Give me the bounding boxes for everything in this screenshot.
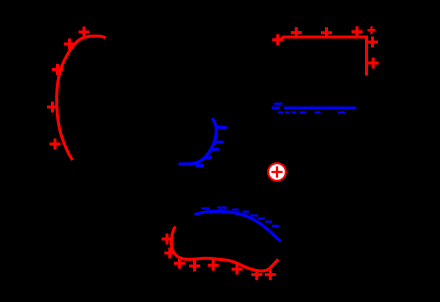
minus mark below S4: [278, 111, 283, 113]
minus mark below S4: [291, 111, 296, 113]
plus mark on S6: [265, 269, 276, 280]
plus mark on S1: [52, 64, 63, 75]
minus mark below S4: [314, 111, 320, 113]
plus mark on S3: [321, 27, 332, 38]
positive surface S6 (red curve, bottom blob underside): [171, 227, 278, 271]
minus mark on S2: [212, 148, 219, 151]
minus mark on S2: [216, 126, 227, 129]
plus mark on S6: [189, 261, 200, 272]
minus mark on S2: [214, 141, 224, 144]
minus mark on S5: [232, 209, 239, 211]
negative surface S4 (blue horizontal plate, upper-right): [272, 106, 357, 109]
minus mark on S5: [258, 218, 265, 220]
minus mark below S4: [338, 111, 346, 113]
plus mark on S6: [164, 248, 175, 259]
minus mark on S2: [206, 156, 212, 159]
plus mark on S1: [64, 39, 75, 50]
plus mark on S3: [368, 58, 379, 69]
minus mark below S4: [285, 111, 289, 113]
minus mark on S5: [201, 207, 210, 209]
minus mark below S4: [299, 111, 306, 113]
plus mark on S6: [162, 234, 173, 245]
minus mark above S4: [274, 103, 283, 105]
minus mark on S5: [272, 225, 279, 227]
minus mark on S5: [242, 211, 249, 213]
positive surface S1 (large red arc, top-left): [57, 36, 106, 160]
plus mark on S6: [174, 258, 185, 269]
minus mark on S5: [265, 221, 272, 223]
minus mark on S5: [217, 207, 227, 209]
negative surface S5 (blue arc, bottom blob top side): [195, 211, 281, 241]
plus mark on S6: [232, 264, 243, 275]
plus mark on S6: [208, 260, 219, 271]
minus mark on S5: [250, 214, 258, 216]
negative surface S2 (blue arc, middle): [179, 118, 217, 164]
plus mark on S1: [79, 27, 90, 38]
plus mark on S1: [47, 102, 58, 113]
plus mark on S3: [352, 26, 363, 37]
plus mark on S3: [272, 34, 283, 45]
plus mark on S6: [251, 269, 262, 280]
positive surface S3 (red right-angle line, top-right): [281, 37, 367, 76]
plus mark on S1: [50, 139, 61, 150]
plus mark on S3: [367, 37, 378, 48]
small plus mark on S3: [368, 26, 376, 34]
minus mark on S2: [195, 164, 204, 167]
plus mark on S3: [291, 27, 302, 38]
point charge Q (circled plus): [268, 163, 286, 181]
